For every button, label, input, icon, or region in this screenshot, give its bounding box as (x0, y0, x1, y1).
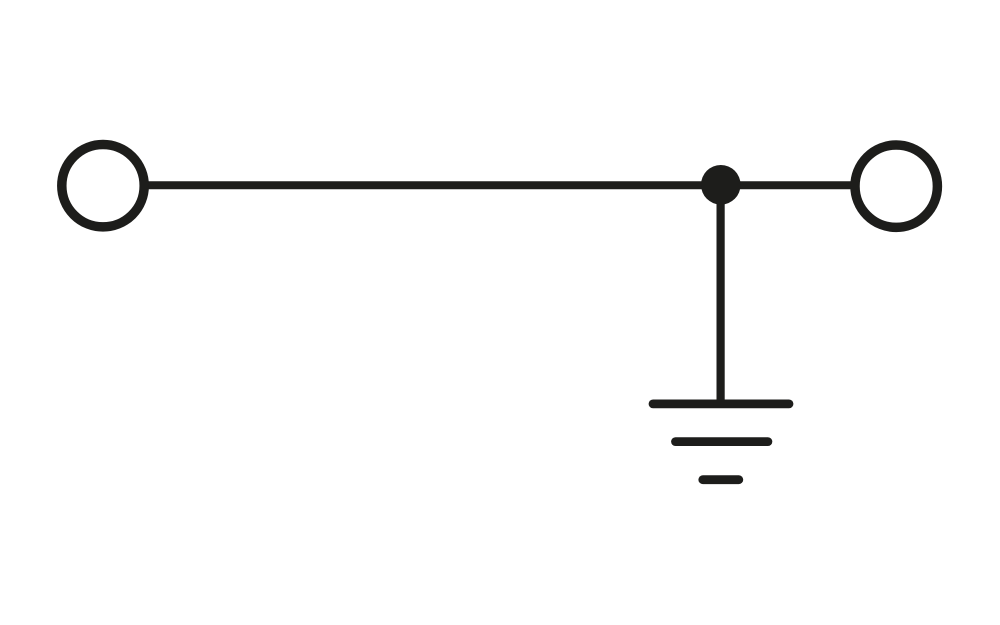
node junction dot (701, 165, 741, 205)
ground (653, 404, 789, 480)
wire (145, 181, 855, 189)
terminal circle left (62, 145, 144, 227)
terminal circle right (855, 145, 937, 227)
wire (716, 185, 724, 404)
